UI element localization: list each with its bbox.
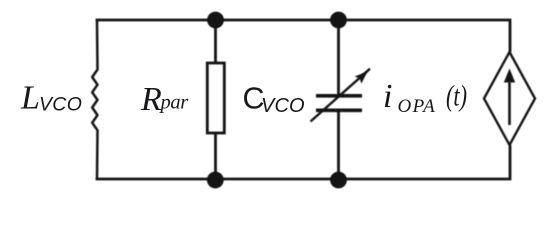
junction dot bottom resistor [207, 172, 224, 189]
wire capacitor branch bottom [337, 110, 340, 180]
capacitor C_VCO top plate [316, 94, 362, 98]
wire top rail [97, 19, 510, 52]
capacitor C_VCO bottom plate [316, 109, 362, 113]
wire bottom rail [97, 145, 510, 180]
current source arrow shaft [508, 82, 511, 125]
current source arrow head [504, 69, 515, 83]
wire resistor branch bottom [214, 133, 217, 180]
svg-text:VCO: VCO [261, 95, 305, 117]
svg-text:par: par [159, 92, 190, 114]
current source diamond [484, 52, 535, 145]
svg-text:VCO: VCO [39, 94, 82, 116]
wire capacitor branch top [337, 20, 340, 95]
resistor R_par body [207, 63, 224, 133]
junction dot bottom capacitor [330, 172, 347, 189]
svg-text:i: i [383, 78, 392, 115]
capacitor arrow head [355, 72, 368, 84]
capacitor variable arrow [311, 69, 371, 122]
svg-text:(t): (t) [446, 80, 467, 113]
junction dot top capacitor [330, 12, 347, 29]
svg-text:R: R [140, 81, 162, 118]
junction dot top resistor [207, 12, 224, 29]
inductor L_VCO coil [92, 20, 97, 179]
svg-text:L: L [20, 79, 40, 116]
svg-text:OPA: OPA [398, 96, 437, 117]
wire resistor branch top [214, 20, 217, 63]
